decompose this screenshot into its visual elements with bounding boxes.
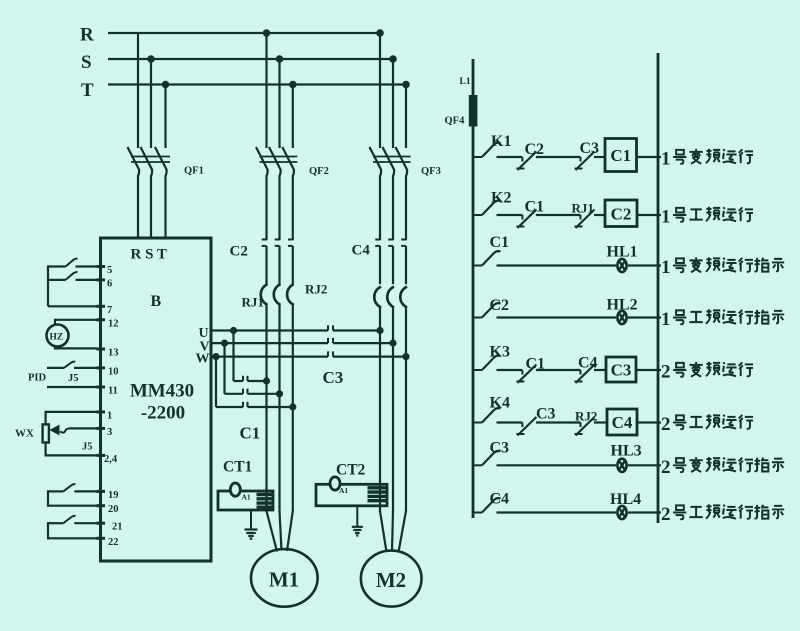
wire QF3 pole3 below breaker xyxy=(406,169,407,176)
junction dot bus tap QF3 pole2 xyxy=(389,55,397,63)
svg-text:3: 3 xyxy=(107,427,112,438)
potentiometer wiper arrow from pin 3 xyxy=(70,427,97,429)
circuit breaker QF2 tie bar upper xyxy=(260,156,298,158)
svg-text:B: B xyxy=(151,293,162,310)
svg-text:6: 6 xyxy=(107,278,112,289)
contact RJ2 (NC) rung6 xyxy=(580,423,582,428)
wire rung4 to right rail xyxy=(628,316,661,318)
svg-text:HL3: HL3 xyxy=(611,443,642,460)
wire pin 22 xyxy=(48,537,97,539)
svg-text:19: 19 xyxy=(108,490,119,501)
wire potentiometer bottom to pins 2,4 xyxy=(44,443,46,457)
junction dot bus tap QF3 pole3 xyxy=(402,81,410,89)
svg-text:-2200: -2200 xyxy=(141,403,185,424)
inverter MM430-2200 box B xyxy=(101,238,212,561)
svg-text:C3: C3 xyxy=(580,140,600,157)
switch to pin 19 (NO contact) xyxy=(48,490,63,492)
wire rung7 xyxy=(497,464,617,466)
svg-text:C4: C4 xyxy=(612,413,633,432)
current transformer CT1 winding xyxy=(257,493,274,496)
wire QF3 pole3 drop from bus xyxy=(405,85,407,149)
wire HZ meter to pin 13 xyxy=(54,346,56,350)
wire M2 branch pole1 xyxy=(379,308,381,513)
wire control left rail L1 xyxy=(472,59,475,518)
wire QF1 pole3 drop from bus xyxy=(164,85,166,149)
svg-text:QF1: QF1 xyxy=(184,166,204,177)
svg-text:1: 1 xyxy=(661,207,671,228)
switch C2 aux xyxy=(474,317,482,319)
wire QF1 pole3 below breaker xyxy=(166,169,167,176)
svg-text:C4: C4 xyxy=(352,243,371,259)
coil C4 xyxy=(607,409,637,435)
circuit breaker QF3 tie bar lower xyxy=(373,161,411,163)
circuit breaker QF1 pole1 blade xyxy=(128,147,140,170)
wire M1 branch pole2 xyxy=(278,305,280,512)
contactor C2 main contact pole2 xyxy=(275,239,280,241)
wire rung6 segment a xyxy=(497,421,523,423)
wire rung5 segment c xyxy=(594,369,606,371)
wire rung6 segment c xyxy=(594,421,607,423)
svg-text:C1: C1 xyxy=(525,199,545,216)
junction dot bus tap QF2 pole3 xyxy=(289,81,297,89)
circuit breaker QF3 tie bar upper xyxy=(373,156,411,158)
wire QF1 pole1 below breaker xyxy=(138,169,139,176)
svg-text:L1: L1 xyxy=(460,77,471,87)
svg-text:21: 21 xyxy=(112,522,123,533)
contact C3 (NC) rung1 xyxy=(580,157,582,162)
coil C2 xyxy=(605,200,637,227)
current transformer CT2 terminal circle xyxy=(330,477,340,490)
svg-text:5: 5 xyxy=(107,265,112,276)
wire QF2 pole1 below breaker xyxy=(267,169,268,176)
svg-text:T: T xyxy=(81,80,94,101)
wire QF2 pole2 below breaker xyxy=(280,169,281,176)
wire control right rail xyxy=(657,53,660,523)
thermal relay RJ1 heater pole2 xyxy=(274,284,281,305)
circuit breaker QF1 tie bar upper xyxy=(131,156,170,158)
wire M1 pole1 into motor xyxy=(267,511,278,552)
current transformer CT1 terminal circle xyxy=(230,483,240,496)
wire inverter output W run xyxy=(211,356,328,358)
wire rung5 segment a xyxy=(497,369,523,371)
junction dot V joins M2 branch pole2 xyxy=(389,340,396,347)
svg-text:HL4: HL4 xyxy=(610,491,641,508)
wire M2 branch pole2 xyxy=(392,308,394,513)
ground symbol (CT2) xyxy=(352,526,363,528)
wire C1 drop W xyxy=(215,357,217,407)
wire C1 drop U xyxy=(232,331,234,382)
svg-text:2: 2 xyxy=(661,504,671,525)
svg-text:1: 1 xyxy=(661,149,671,170)
coil C3 xyxy=(606,357,636,382)
wire pin 12 to HZ meter xyxy=(55,319,97,321)
contactor C1 contact pole3 xyxy=(216,406,243,408)
wire S bus xyxy=(108,58,393,60)
contact C3 (NC) rung6 xyxy=(521,423,523,428)
junction dot C1 pole1 joins M1 branch xyxy=(263,377,270,384)
switch J5 on pin 10 (NO contact) xyxy=(47,367,64,369)
thermal relay RJ2 heater pole3 xyxy=(400,287,407,308)
svg-text:M1: M1 xyxy=(269,568,299,592)
contactor C4 main contact pole2 xyxy=(388,239,393,241)
wire QF3 pole2 drop from bus xyxy=(392,59,394,148)
contactor C3 contact on U line xyxy=(327,325,329,330)
motor M2 xyxy=(361,551,422,607)
contactor C4 main contact pole1 xyxy=(375,239,380,241)
wire rung1 to right rail xyxy=(637,156,662,158)
wire CT2 to ground xyxy=(356,506,358,526)
svg-text:C1: C1 xyxy=(490,234,510,251)
contact RJ1 (NC) rung2 xyxy=(580,215,582,220)
switch K1 xyxy=(474,156,482,158)
junction dot V to C1 drop xyxy=(221,340,228,347)
svg-text:A1: A1 xyxy=(242,493,251,502)
svg-text:WX: WX xyxy=(15,428,34,440)
svg-text:C3: C3 xyxy=(323,368,344,387)
contact C1 (NC) rung2 xyxy=(521,215,523,220)
junction dot C1 pole3 joins M1 branch xyxy=(289,403,296,410)
svg-text:10: 10 xyxy=(108,366,119,377)
wire rung7 to right rail xyxy=(628,464,661,466)
wire QF2 pole1 drop from bus xyxy=(265,33,267,148)
svg-text:RJ2: RJ2 xyxy=(575,409,597,424)
wire rung3 to right rail xyxy=(628,264,661,266)
svg-text:A1: A1 xyxy=(339,486,348,495)
inverter pin 19 stub xyxy=(97,490,106,493)
svg-text:PID: PID xyxy=(28,373,47,384)
svg-text:13: 13 xyxy=(108,348,119,359)
wire M1 branch pole3 xyxy=(292,305,294,512)
wire rung8 to right rail xyxy=(628,511,661,513)
contactor C2 main contact pole1 xyxy=(262,239,267,241)
svg-text:1: 1 xyxy=(661,257,671,278)
contactor C2 main contact pole3 xyxy=(288,239,293,241)
wire M2 pole2 into motor xyxy=(392,511,393,551)
wire CT1 to ground xyxy=(250,510,252,529)
wire inverter output U run xyxy=(211,329,328,331)
inverter pin 12 stub xyxy=(97,318,106,321)
wire pin 20 xyxy=(48,505,97,507)
contactor C1 contact pole1 xyxy=(234,380,244,382)
svg-text:RJ1: RJ1 xyxy=(572,201,594,216)
svg-text:C2: C2 xyxy=(490,297,510,314)
svg-text:K4: K4 xyxy=(490,395,510,412)
junction dot bus tap QF2 pole1 xyxy=(263,29,271,37)
contactor C1 contact pole2 xyxy=(225,393,244,395)
inverter pin 6 stub xyxy=(97,278,106,281)
circuit breaker QF1 tie bar lower xyxy=(131,161,170,163)
current transformer CT2 body xyxy=(316,484,387,506)
wire QF3 pole2 below breaker xyxy=(393,169,394,176)
wire inverter output V run xyxy=(211,342,328,344)
current transformer CT2 winding xyxy=(368,486,388,489)
svg-text:1: 1 xyxy=(107,410,112,421)
wire QF1 pole2 drop from bus xyxy=(150,59,152,148)
wire rung4 xyxy=(497,316,617,318)
svg-text:2: 2 xyxy=(661,362,671,383)
contact C1 (NC) rung5 xyxy=(521,370,523,375)
inverter pin 21 stub xyxy=(97,522,106,525)
wire rung5 to right rail xyxy=(636,369,661,371)
circuit breaker QF3 pole3 blade xyxy=(396,147,408,170)
wire QF2 pole2 drop from bus xyxy=(278,59,280,148)
switch K3 xyxy=(474,369,482,371)
inverter pin 11 stub xyxy=(97,386,106,389)
lamp HL2 xyxy=(617,311,626,324)
svg-text:2,4: 2,4 xyxy=(104,454,118,465)
svg-text:20: 20 xyxy=(108,504,119,515)
ground symbol (CT1) xyxy=(245,528,258,530)
switch K2 xyxy=(474,214,482,216)
inverter pin 13 stub xyxy=(97,348,106,351)
svg-text:K2: K2 xyxy=(491,190,511,207)
svg-text:2: 2 xyxy=(661,457,671,478)
switch to pin 6 (NO contact) xyxy=(48,279,66,281)
junction dot U to C1 drop xyxy=(230,327,237,334)
svg-text:12: 12 xyxy=(108,318,119,329)
switch K4 xyxy=(474,422,482,424)
svg-text:C2: C2 xyxy=(611,204,632,223)
switch C4 aux xyxy=(474,512,482,514)
inverter pin 7 stub xyxy=(97,305,106,308)
wire M1 pole3 into motor xyxy=(287,511,293,551)
wire common bracket pins 19/20 xyxy=(47,490,49,507)
wire QF3 pole1 below breaker xyxy=(380,169,381,176)
circuit breaker QF1 pole2 blade xyxy=(141,147,153,170)
wire M2 pole1 into motor xyxy=(380,511,387,552)
wire pin 1 to potentiometer top xyxy=(46,411,97,413)
svg-text:C1: C1 xyxy=(240,424,261,443)
svg-text:RJ2: RJ2 xyxy=(305,282,327,297)
wire T bus xyxy=(108,83,406,85)
wire rung6 to right rail xyxy=(637,421,661,423)
lamp HL4 xyxy=(617,506,626,519)
inverter pin 3 stub xyxy=(97,427,106,430)
svg-text:C3: C3 xyxy=(536,406,556,423)
thermal relay RJ2 heater pole2 xyxy=(387,287,394,308)
meter HZ (frequency indicator circle) xyxy=(47,325,69,347)
wire rung2 segment b xyxy=(536,214,581,216)
svg-text:QF2: QF2 xyxy=(309,166,329,177)
contact C4 (NC) rung5 xyxy=(580,370,582,375)
contact C2 (NC) rung1 xyxy=(521,157,523,162)
svg-text:CT2: CT2 xyxy=(336,462,366,479)
inverter pin 10 stub xyxy=(97,366,106,369)
svg-text:M2: M2 xyxy=(376,568,406,592)
wire pin 11 xyxy=(47,386,97,388)
circuit breaker QF2 pole3 blade xyxy=(282,147,294,170)
wire QF1 pole1 drop from bus xyxy=(137,33,139,148)
potentiometer WX body xyxy=(43,424,49,442)
inverter pin 5 stub xyxy=(97,265,106,268)
inverter pin 22 stub xyxy=(97,537,106,540)
wire QF2 pole3 drop from bus xyxy=(292,85,294,149)
svg-text:K3: K3 xyxy=(490,344,510,361)
coil C1 xyxy=(605,139,637,172)
wire rung6 segment b xyxy=(536,421,581,423)
wire common bracket pins 5/6 to pin 7 xyxy=(47,265,49,306)
svg-text:W: W xyxy=(196,352,210,367)
svg-text:C3: C3 xyxy=(611,361,632,380)
switch C3 aux xyxy=(474,464,482,466)
inverter pin 2,4 stub xyxy=(97,454,106,457)
svg-text:HZ: HZ xyxy=(50,333,64,343)
wire QF1 pole2 below breaker xyxy=(151,169,152,176)
switch C1 aux xyxy=(474,265,482,267)
wire M2 pole3 into motor xyxy=(399,511,407,552)
svg-text:S: S xyxy=(81,52,92,73)
svg-text:K1: K1 xyxy=(491,133,511,150)
svg-text:CT1: CT1 xyxy=(223,459,252,476)
svg-text:HL2: HL2 xyxy=(607,297,638,314)
switch to pin 5 (NO contact) xyxy=(48,265,66,267)
wire common bracket pins 21/22 xyxy=(47,522,49,539)
wire rung2 to right rail xyxy=(637,214,661,216)
thermal relay RJ2 heater pole1 xyxy=(374,287,381,308)
contactor C3 contact on V line xyxy=(327,338,329,343)
junction dot C1 pole2 joins M1 branch xyxy=(276,390,283,397)
svg-text:C2: C2 xyxy=(525,141,545,158)
junction dot bus tap QF2 pole2 xyxy=(276,55,284,63)
wire rung1 segment b xyxy=(536,156,581,158)
junction dot W to C1 drop xyxy=(212,353,219,360)
svg-text:C2: C2 xyxy=(230,244,248,260)
wire QF3 pole1 drop from bus xyxy=(379,33,381,148)
circuit breaker QF3 pole1 blade xyxy=(370,147,382,170)
contactor C4 main contact pole3 xyxy=(401,239,406,241)
wire rung1 segment c xyxy=(594,156,605,158)
inverter pin 1 stub xyxy=(97,410,106,413)
svg-text:HL1: HL1 xyxy=(607,244,638,261)
wire R bus xyxy=(108,32,381,34)
wire QF2 pole3 below breaker xyxy=(293,169,294,176)
svg-text:R S T: R S T xyxy=(131,247,167,263)
inverter pin 20 stub xyxy=(97,504,106,507)
svg-text:2: 2 xyxy=(661,414,671,435)
wire rung1 segment a xyxy=(497,156,523,158)
wire rung2 segment c xyxy=(594,214,605,216)
contactor C3 contact on W line xyxy=(327,351,329,356)
svg-text:1: 1 xyxy=(661,309,671,330)
lamp HL1 xyxy=(617,259,626,272)
wire rung3 xyxy=(497,264,617,266)
wire rung5 segment b xyxy=(536,369,581,371)
svg-text:QF4: QF4 xyxy=(445,116,466,127)
svg-text:R: R xyxy=(80,25,94,46)
wire rung8 xyxy=(497,511,617,513)
svg-text:RJ1: RJ1 xyxy=(242,295,264,310)
wire M1 pole2 into motor xyxy=(280,511,282,551)
wire C1 drop V xyxy=(223,343,225,394)
circuit breaker QF2 pole2 blade xyxy=(269,147,281,170)
fuse QF4 xyxy=(469,95,478,127)
lamp HL3 xyxy=(617,459,626,472)
junction dot W joins M2 branch pole3 xyxy=(402,353,409,360)
thermal relay RJ1 heater pole3 xyxy=(287,284,294,305)
svg-text:C1: C1 xyxy=(610,146,631,165)
svg-text:J5: J5 xyxy=(82,442,93,453)
junction dot bus tap QF3 pole1 xyxy=(376,29,384,37)
svg-text:J5: J5 xyxy=(68,373,79,384)
thermal relay RJ1 heater pole1 xyxy=(261,284,268,305)
current transformer CT1 body xyxy=(218,491,273,510)
wire M2 branch pole3 xyxy=(405,308,407,513)
svg-text:QF3: QF3 xyxy=(421,166,441,177)
svg-text:MM430: MM430 xyxy=(130,381,194,402)
wire M1 branch pole1 RJ1 to CT1 xyxy=(265,305,267,512)
svg-text:C3: C3 xyxy=(490,440,510,457)
motor M1 xyxy=(251,549,318,607)
junction dot U joins M2 branch pole1 xyxy=(376,327,383,334)
circuit breaker QF2 tie bar lower xyxy=(260,161,298,163)
circuit breaker QF1 pole3 blade xyxy=(155,147,167,170)
junction dot bus tap QF1 pole2 xyxy=(147,55,155,63)
switch to pin 21 (NO contact) xyxy=(48,522,63,524)
circuit breaker QF2 pole1 blade xyxy=(256,147,268,170)
junction dot bus tap QF1 pole3 xyxy=(162,81,170,89)
wire rung2 segment a xyxy=(497,214,523,216)
svg-text:C4: C4 xyxy=(490,491,510,508)
svg-text:11: 11 xyxy=(108,386,118,397)
svg-text:22: 22 xyxy=(108,537,119,548)
svg-text:7: 7 xyxy=(107,305,112,316)
circuit breaker QF3 pole2 blade xyxy=(383,147,395,170)
